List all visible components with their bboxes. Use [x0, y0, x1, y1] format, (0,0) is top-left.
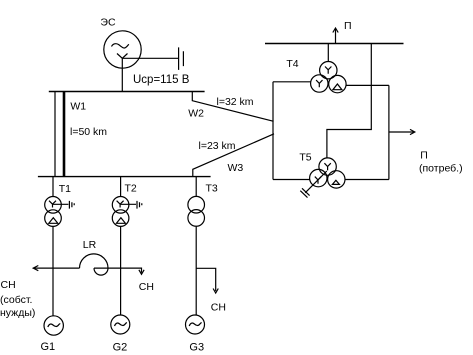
svg-text:l=50 km: l=50 km	[70, 126, 107, 138]
svg-text:LR: LR	[83, 239, 97, 251]
svg-text:нужды): нужды)	[0, 307, 35, 319]
svg-text:(потреб.): (потреб.)	[419, 163, 463, 175]
svg-text:G2: G2	[113, 341, 128, 353]
svg-text:G1: G1	[41, 341, 56, 353]
svg-text:W2: W2	[188, 108, 204, 120]
svg-text:П: П	[420, 149, 428, 161]
svg-text:T1: T1	[59, 183, 71, 195]
svg-text:T5: T5	[299, 151, 311, 163]
svg-text:T3: T3	[206, 183, 218, 195]
svg-text:СН: СН	[1, 279, 16, 291]
svg-text:W1: W1	[70, 101, 86, 113]
svg-text:П: П	[344, 20, 352, 32]
svg-text:(собст.: (собст.	[0, 294, 32, 306]
svg-text:l=23 km: l=23 km	[199, 140, 236, 152]
svg-text:СН: СН	[211, 301, 226, 313]
svg-text:G3: G3	[189, 341, 204, 353]
svg-text:W3: W3	[228, 162, 244, 174]
svg-text:l=32 km: l=32 km	[217, 96, 254, 108]
svg-text:T2: T2	[125, 183, 137, 195]
svg-text:ЭС: ЭС	[100, 17, 116, 29]
svg-text:T4: T4	[286, 58, 298, 70]
svg-text:СН: СН	[139, 281, 154, 293]
svg-text:Uср=115 В: Uср=115 В	[133, 74, 190, 86]
